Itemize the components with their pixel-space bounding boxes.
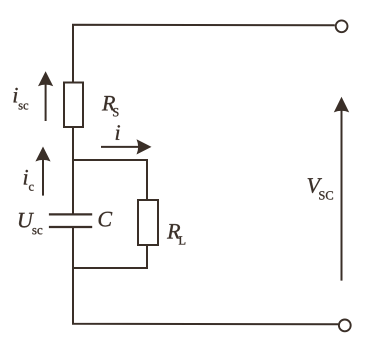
capacitor C top plate bbox=[49, 213, 92, 215]
label C bbox=[99, 212, 113, 227]
capacitor C bottom plate bbox=[49, 226, 92, 228]
wire: top rail + left upper run (to capacitor top plate) bbox=[73, 25, 335, 215]
current arrow i_c bbox=[42, 160, 44, 196]
voltage arrow V_SC bbox=[341, 110, 343, 281]
label i_sc bbox=[14, 88, 29, 110]
wire: left lower run + bottom rail bbox=[73, 227, 338, 324]
label i_c bbox=[24, 170, 34, 191]
terminal top-right bbox=[336, 20, 348, 32]
label U_sc bbox=[19, 213, 42, 234]
label i bbox=[116, 125, 120, 140]
wire: parallel branch loop (top, right, bottom) bbox=[73, 160, 147, 268]
label R_S bbox=[102, 96, 119, 116]
terminal bottom-right bbox=[339, 320, 351, 332]
resistor R_S bbox=[64, 83, 83, 128]
label V_SC bbox=[308, 178, 333, 199]
resistor R_L bbox=[138, 200, 158, 245]
label R_L bbox=[167, 224, 185, 244]
current arrow i (horizontal) bbox=[101, 146, 139, 148]
current arrow i_sc bbox=[45, 84, 47, 121]
